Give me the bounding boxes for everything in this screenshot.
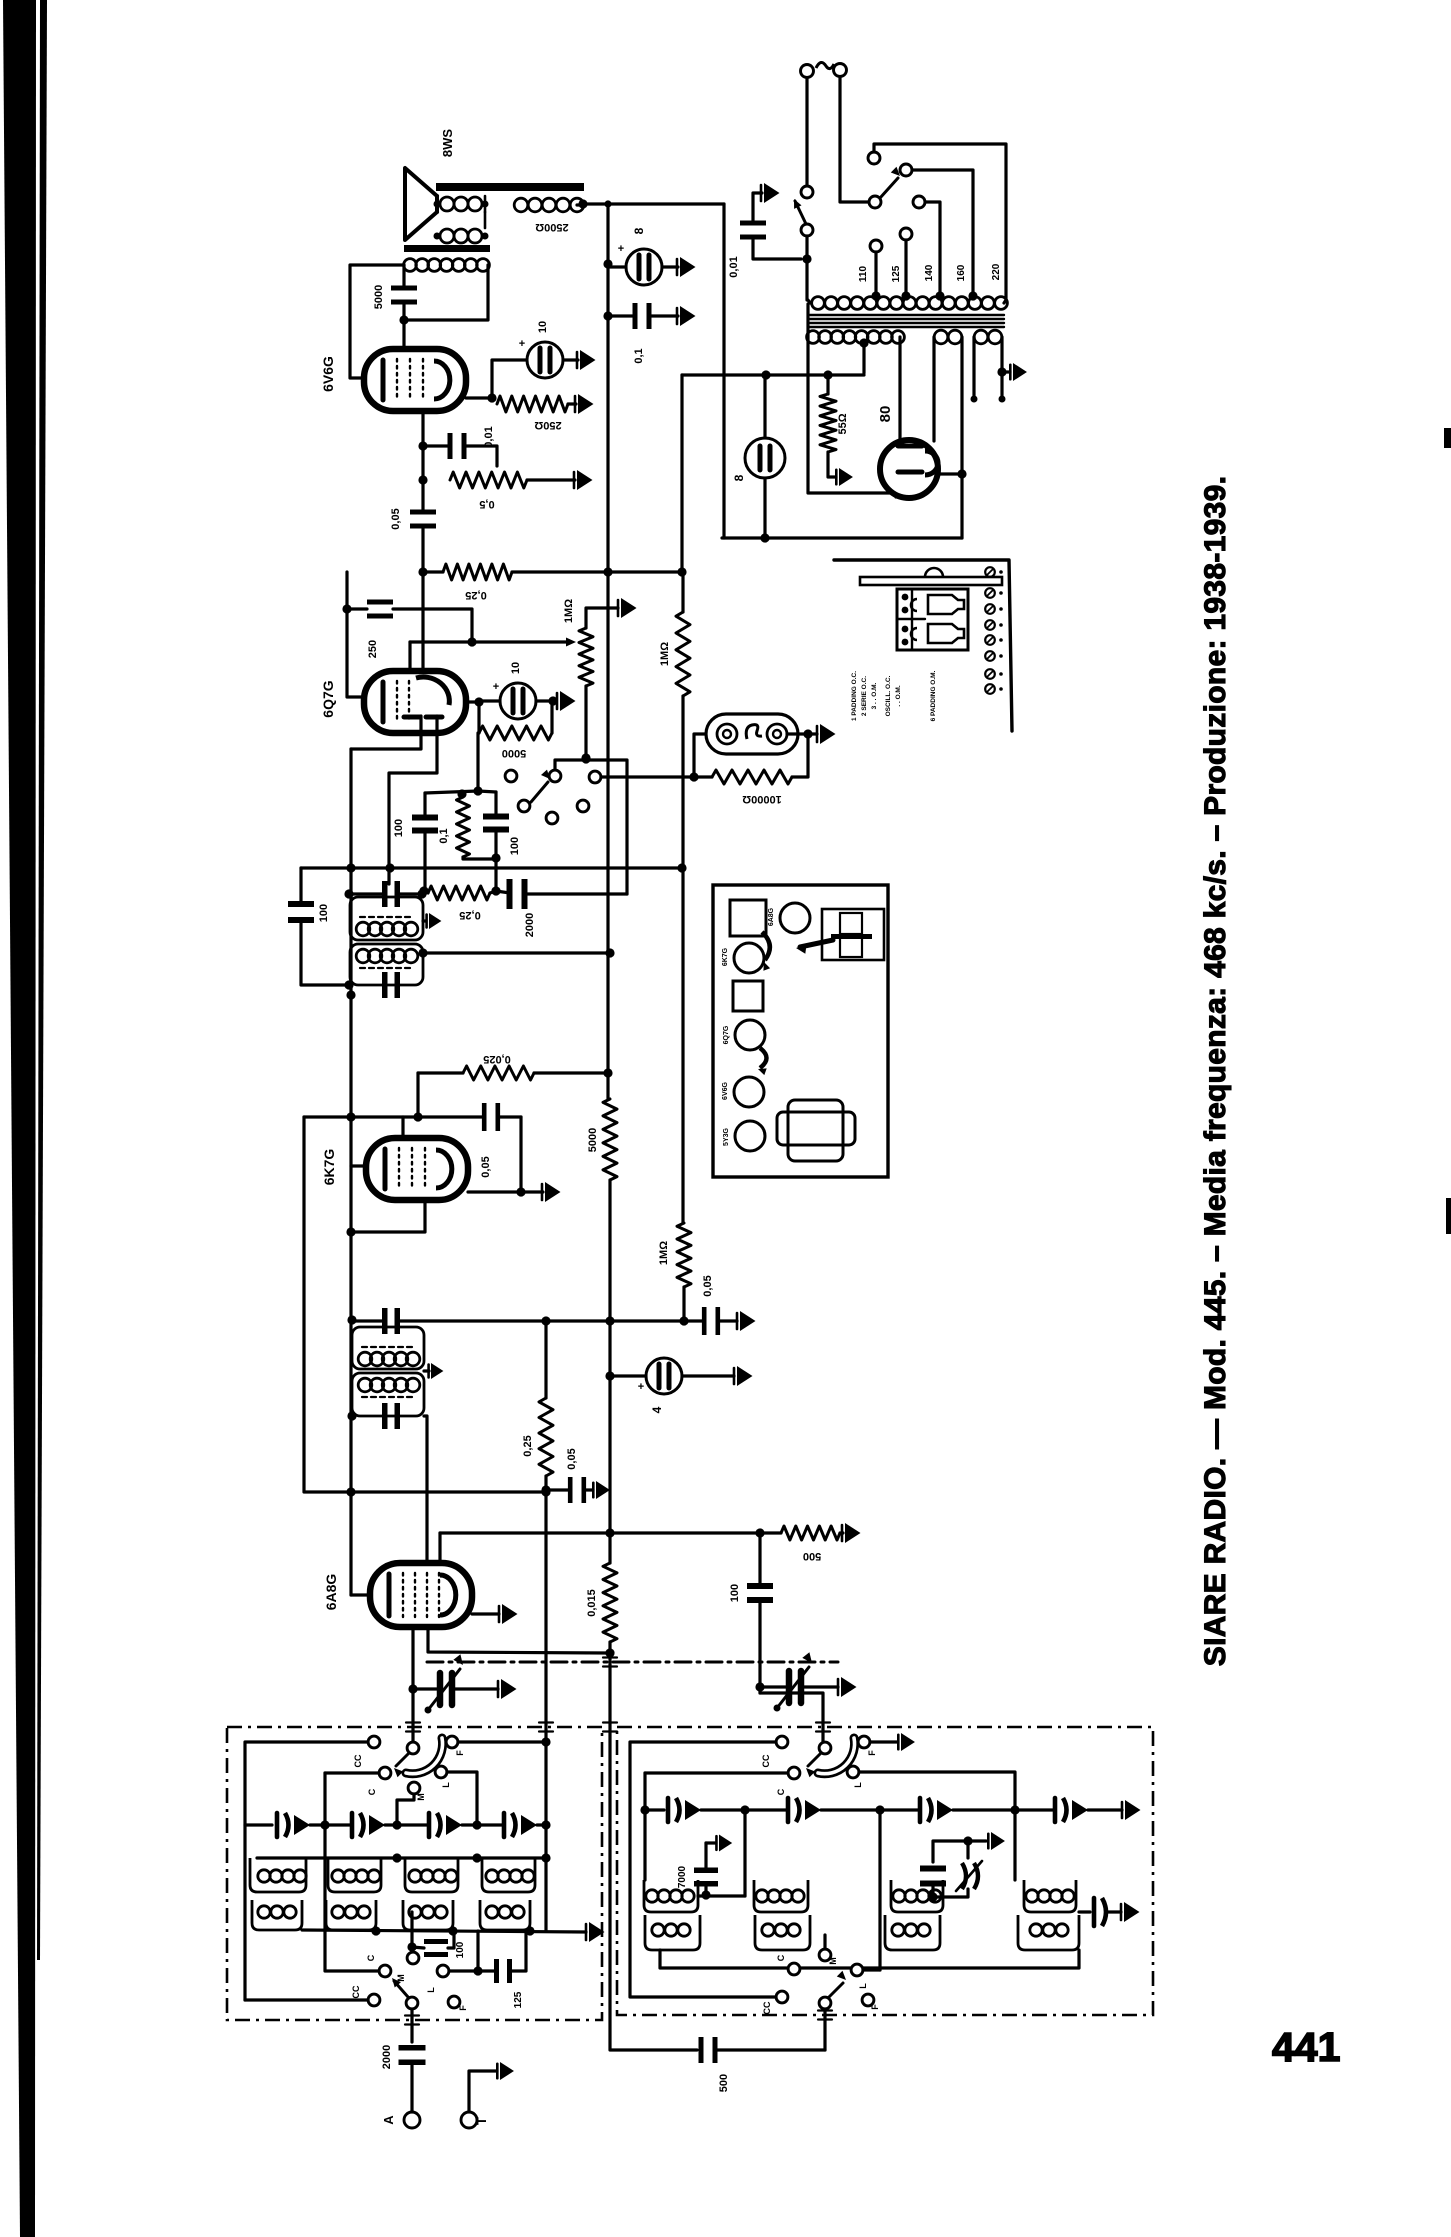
osc switch arc bbox=[818, 1738, 855, 1774]
ant contact L bottom bbox=[437, 1965, 449, 1977]
wire 7000 link bbox=[698, 1894, 745, 1897]
selector contact 160 bbox=[900, 164, 912, 176]
osc switch blade bottom bbox=[829, 1983, 843, 1997]
osc trimmer 4 bbox=[1053, 1798, 1058, 1822]
svg-text:0,01: 0,01 bbox=[728, 256, 740, 277]
ant contact C bottom bbox=[379, 1965, 391, 1977]
svg-text:125: 125 bbox=[513, 1991, 524, 2008]
wire 6A8G left bbox=[351, 1593, 370, 1596]
oscillator box border bbox=[617, 1727, 1153, 2015]
svg-text:55Ω: 55Ω bbox=[837, 413, 849, 434]
svg-text:80: 80 bbox=[877, 406, 894, 423]
resistor 55 ohm bbox=[820, 394, 836, 452]
ground arrow pickup bbox=[820, 724, 836, 744]
svg-text:6V6G: 6V6G bbox=[722, 1081, 729, 1099]
svg-text:OSCILL. O.C.: OSCILL. O.C. bbox=[885, 675, 892, 716]
resistor 0,1 det bbox=[457, 797, 470, 857]
svg-text:0,01: 0,01 bbox=[483, 426, 495, 447]
capacitor 100 c bbox=[424, 1939, 448, 1944]
capacitor 2000 ant bbox=[399, 2045, 426, 2051]
filament winding 2 bbox=[974, 330, 988, 344]
svg-text:100: 100 bbox=[729, 1584, 741, 1602]
svg-text:6K7G: 6K7G bbox=[722, 947, 729, 966]
svg-text:110: 110 bbox=[858, 265, 869, 282]
output primary coil bbox=[404, 259, 417, 272]
output transformer core bar 2 bbox=[404, 245, 490, 252]
tube 6A8G bbox=[370, 1563, 472, 1627]
power switch contact upper bbox=[801, 186, 813, 198]
svg-text:+: + bbox=[618, 243, 624, 255]
IF transformer 1 coil 2 bbox=[352, 1373, 424, 1416]
svg-text:1MΩ: 1MΩ bbox=[563, 599, 575, 623]
IF can body bbox=[897, 589, 968, 650]
wire rectifier output bbox=[937, 472, 962, 475]
svg-text:+: + bbox=[493, 681, 499, 693]
layout tube 80 bbox=[735, 1121, 765, 1151]
screw terminals bbox=[985, 567, 995, 577]
ant coil row 1d bbox=[486, 1870, 498, 1882]
ant switch pivot bbox=[407, 1742, 419, 1754]
field coil 2500 ohm bbox=[514, 198, 528, 212]
detector node wire bbox=[425, 791, 496, 793]
ant switch blade bbox=[396, 1753, 409, 1766]
layout tube 6V6G bbox=[734, 1077, 764, 1107]
IF2 shield arrow bbox=[423, 919, 426, 922]
wire cathode 6Q7G bbox=[466, 700, 479, 703]
resistor 0,25 diode bbox=[428, 886, 490, 900]
ground arrow 0,05 e bbox=[596, 1481, 610, 1499]
osc contact C bottom bbox=[788, 1963, 800, 1975]
IF2 top cap bbox=[382, 881, 388, 907]
ground arrow T bbox=[500, 2062, 514, 2080]
wire PS left loop bbox=[808, 304, 896, 497]
svg-text:160: 160 bbox=[956, 264, 967, 281]
ant coil row 2d bbox=[480, 1900, 530, 1930]
ant contact M bbox=[408, 1782, 420, 1794]
black scan edge bar bbox=[3, 0, 36, 2237]
svg-text:0,025: 0,025 bbox=[483, 1053, 511, 1065]
capacitor 0,1 bbox=[633, 303, 638, 329]
ant trimmer 3 bbox=[427, 1813, 432, 1837]
svg-text:F: F bbox=[458, 2005, 468, 2011]
capacitor 0,05 e bbox=[568, 1477, 573, 1503]
osc coil 2 sec bbox=[755, 1915, 810, 1950]
svg-text:8: 8 bbox=[632, 227, 646, 234]
wire osc pivot down bbox=[823, 2009, 826, 2050]
PS filter cap 8uF bbox=[745, 438, 785, 478]
trimmer screws bbox=[928, 595, 964, 614]
ground arrow osc F bbox=[901, 1733, 915, 1751]
wire cathode 6V6G bbox=[466, 396, 492, 399]
ant trimmer 2 bbox=[350, 1813, 355, 1837]
svg-text:2 SERIE O.C.: 2 SERIE O.C. bbox=[861, 676, 868, 716]
edge speck 1 bbox=[1444, 428, 1451, 448]
svg-text:220: 220 bbox=[991, 263, 1002, 280]
selector contact 220 bbox=[868, 152, 880, 164]
bus segment bbox=[606, 264, 609, 316]
bus segment 4 bbox=[608, 1180, 611, 1321]
svg-text:M: M bbox=[828, 1957, 838, 1965]
ant trimmer row wire bbox=[245, 1824, 264, 1826]
osc coil 1 sec bbox=[645, 1915, 700, 1950]
svg-text:1MΩ: 1MΩ bbox=[658, 1241, 670, 1265]
wire AC1 to switch bbox=[805, 78, 808, 186]
ground arrow gang a bbox=[501, 1679, 517, 1699]
ground arrow power 0,01 bbox=[764, 183, 780, 203]
svg-text:125: 125 bbox=[891, 265, 902, 282]
ant switch blade bottom bbox=[394, 1981, 408, 1997]
volume pot 1M bbox=[579, 628, 593, 686]
ground arrow gang b bbox=[841, 1677, 857, 1697]
ground arrow filament bbox=[1013, 363, 1027, 381]
svg-text:C: C bbox=[366, 1954, 376, 1961]
bus segment 5 bbox=[608, 1321, 611, 1376]
wire 6A8G cathode bbox=[472, 1612, 499, 1615]
AC terminal 2 bbox=[834, 64, 847, 77]
IF transformer 1 coil 1 bbox=[352, 1327, 424, 1369]
edge speck 2 bbox=[1446, 1198, 1451, 1234]
svg-text:L: L bbox=[441, 1782, 451, 1788]
svg-text:0,05: 0,05 bbox=[390, 508, 402, 529]
svg-text:C: C bbox=[776, 1788, 786, 1795]
filament winding 1 bbox=[934, 330, 948, 344]
svg-text:0,1: 0,1 bbox=[633, 348, 645, 363]
output transformer core bar bbox=[436, 183, 584, 191]
border tick marks bbox=[406, 1721, 420, 1723]
electrolytic 4uF bbox=[646, 1358, 682, 1394]
tone blade bbox=[531, 782, 548, 802]
ground arrow pot bbox=[621, 598, 637, 618]
osc trimmer 2 bbox=[786, 1798, 791, 1822]
svg-text:+: + bbox=[519, 338, 525, 350]
IF transformer 2 coil 2 bbox=[350, 944, 423, 985]
wire osc grid bbox=[411, 1627, 414, 1742]
svg-text:2500Ω: 2500Ω bbox=[535, 221, 568, 233]
svg-text:0,5: 0,5 bbox=[479, 498, 494, 510]
capacitor 0,05 d bbox=[702, 1307, 707, 1335]
layout arrow 2 bbox=[760, 1048, 767, 1068]
osc contact L bottom bbox=[851, 1964, 863, 1976]
osc contact M bottom bbox=[819, 1949, 831, 1961]
layout IF can 1 bbox=[730, 900, 766, 936]
svg-text:0,05: 0,05 bbox=[566, 1448, 578, 1469]
ant coil row 2c bbox=[403, 1900, 453, 1930]
svg-text:500: 500 bbox=[718, 2074, 730, 2092]
capacitor 0,01 bbox=[448, 433, 453, 459]
osc coil 4 sec bbox=[1018, 1915, 1079, 1950]
osc bottom wire bbox=[660, 1950, 1079, 1968]
capacitor 100 det 2 bbox=[483, 814, 509, 820]
earth terminal T bbox=[461, 2112, 477, 2128]
svg-text:100: 100 bbox=[509, 837, 521, 855]
bus segment 3 bbox=[606, 893, 609, 1099]
HV secondary bbox=[807, 331, 820, 344]
layout tube 6A8G bbox=[780, 903, 810, 933]
svg-text:250: 250 bbox=[367, 640, 379, 658]
tone contact 1 bbox=[505, 770, 517, 782]
capacitor 2000 bbox=[507, 879, 513, 909]
rectifier tube 80 bbox=[880, 440, 938, 498]
capacitor 250 bbox=[367, 600, 393, 605]
osc trimmer 3 bbox=[918, 1798, 923, 1822]
ground arrow 0,05 d bbox=[740, 1311, 756, 1331]
electrolytic 10uF b bbox=[500, 683, 536, 719]
resistor 0,025 bbox=[463, 1066, 534, 1080]
svg-text:. . O.M.: . . O.M. bbox=[895, 685, 902, 707]
tube 6V6G bbox=[364, 349, 466, 411]
ant secondary bottom wire bbox=[302, 1930, 586, 1932]
capacitor 100 det bbox=[412, 815, 438, 821]
wire grid2 drop bbox=[438, 1533, 441, 1563]
tone switch box wire bbox=[555, 760, 627, 894]
ant coil row 2a bbox=[252, 1900, 302, 1930]
svg-text:M: M bbox=[416, 1793, 426, 1801]
capacitor 125 bbox=[494, 1959, 499, 1983]
wire 6Q7G grid-left bbox=[347, 572, 364, 697]
ground arrow ant sec bbox=[589, 1922, 605, 1942]
svg-text:1MΩ: 1MΩ bbox=[659, 642, 671, 666]
wire switch to junction bbox=[805, 236, 808, 259]
osc contact L bbox=[847, 1766, 859, 1778]
osc contact C bbox=[788, 1767, 800, 1779]
wire bus to 500 bbox=[610, 1655, 697, 2050]
gang cap antenna bbox=[437, 1673, 444, 1705]
svg-text:8WS: 8WS bbox=[440, 129, 455, 158]
svg-text:0,05: 0,05 bbox=[480, 1156, 492, 1177]
capacitor 7000 bbox=[694, 1868, 718, 1874]
svg-text:441: 441 bbox=[1272, 2024, 1340, 2070]
wire IF1 top b bbox=[546, 1319, 703, 1322]
capacitor 100 AVC bbox=[288, 901, 314, 907]
osc coil 1 bbox=[646, 1890, 658, 1902]
node plate 6V6G bbox=[399, 315, 408, 324]
ground arrow 6A8G bbox=[502, 1604, 518, 1624]
resistor 250 ohm bbox=[497, 396, 568, 412]
wire osc link bbox=[760, 1693, 823, 1742]
svg-text:5000: 5000 bbox=[502, 747, 526, 759]
wire 1M chain bbox=[681, 696, 684, 1223]
svg-text:+: + bbox=[638, 1381, 644, 1393]
tone contact 3 bbox=[589, 771, 601, 783]
svg-text:C: C bbox=[776, 1954, 786, 1961]
capacitor 500 bbox=[699, 2037, 704, 2063]
svg-text:5000: 5000 bbox=[373, 285, 385, 309]
wire IF1 top bbox=[352, 1319, 384, 1322]
ant coil row 1c bbox=[409, 1870, 421, 1882]
ground arrow coil4 bbox=[1124, 1902, 1140, 1922]
wire 0,25 down bbox=[544, 1492, 547, 1858]
ant contact CC bottom bbox=[368, 1994, 380, 2006]
wire grid2 line bbox=[440, 1531, 760, 1534]
layout IF can 2 bbox=[733, 981, 763, 1011]
osc coil 4 bbox=[1026, 1890, 1038, 1902]
ant coil top wire bbox=[257, 1856, 546, 1859]
svg-text:100: 100 bbox=[393, 819, 405, 837]
osc trimmer 1 bbox=[666, 1798, 671, 1822]
resistor 0,5 bbox=[450, 472, 527, 488]
svg-text:250Ω: 250Ω bbox=[534, 419, 561, 431]
svg-text:T: T bbox=[474, 2117, 489, 2125]
ground arrow 55 bbox=[839, 468, 853, 486]
svg-text:2000: 2000 bbox=[381, 2045, 393, 2069]
bus segment 6 bbox=[608, 1376, 611, 1533]
svg-text:5000: 5000 bbox=[587, 1128, 599, 1152]
wire B+ top bbox=[583, 202, 724, 205]
wire ant F riser bbox=[544, 1858, 547, 1931]
ant switch pivot bottom bbox=[406, 1997, 418, 2009]
wire 1M b bottom bbox=[682, 1287, 685, 1321]
ant wire C riser bbox=[325, 1773, 379, 1971]
svg-text:F: F bbox=[455, 1750, 465, 1756]
chassis layout frame bbox=[713, 885, 888, 1177]
wire pickup right bbox=[787, 732, 808, 735]
osc coil 4 cap bbox=[1079, 1910, 1090, 1913]
tube 6Q7G bbox=[364, 671, 466, 733]
wire PS B+ rail bbox=[682, 373, 864, 376]
svg-text:8: 8 bbox=[732, 474, 746, 481]
osc contact F bbox=[858, 1736, 870, 1748]
svg-text:6A8G: 6A8G bbox=[768, 907, 775, 926]
wire cathode 6K7G bbox=[468, 1190, 543, 1193]
capacitor 0,05 coupling bbox=[410, 510, 436, 515]
ant contact C bbox=[379, 1767, 391, 1779]
ant coil row 1a bbox=[258, 1870, 270, 1882]
tone contact 6 bbox=[546, 812, 558, 824]
osc switch pivot bbox=[819, 1742, 831, 1754]
svg-text:10: 10 bbox=[510, 662, 522, 674]
svg-text:2000: 2000 bbox=[524, 913, 536, 937]
osc trimmer row bbox=[645, 1808, 664, 1811]
osc coil 3 sec bbox=[885, 1915, 940, 1950]
wire osc L riser bbox=[878, 1810, 881, 1970]
selector blade bbox=[880, 178, 898, 198]
svg-text:L: L bbox=[426, 1987, 436, 1993]
svg-text:CC: CC bbox=[762, 2001, 772, 2014]
osc contact F bottom bbox=[862, 1994, 874, 2006]
ground arrow 0,1 bbox=[680, 306, 696, 326]
wire B+ right down bbox=[722, 204, 725, 538]
bus segment 7 bbox=[608, 1642, 611, 1655]
wire PS bottom bbox=[722, 536, 962, 539]
selector common contact bbox=[869, 196, 881, 208]
osc contact CC bottom bbox=[776, 1991, 788, 2003]
wire AC2 to selector bbox=[840, 77, 868, 202]
svg-text:0,25: 0,25 bbox=[459, 909, 480, 921]
ground arrow osc row bbox=[1125, 1800, 1141, 1820]
pickup jack bbox=[706, 714, 798, 754]
ground arrow 4uF bbox=[737, 1366, 753, 1386]
osc padder pair bbox=[920, 1866, 946, 1872]
wire diode 1 bbox=[351, 716, 421, 749]
wire 6A8G bottom bbox=[428, 1627, 608, 1653]
layout arrow 1 bbox=[762, 932, 770, 960]
svg-text:0,05: 0,05 bbox=[702, 1275, 714, 1296]
svg-text:140: 140 bbox=[924, 264, 935, 281]
wire plate 6Q7G riser bbox=[421, 572, 424, 671]
wire screen 6K7G bbox=[416, 1073, 419, 1117]
resistor 5000 screen bbox=[603, 1099, 617, 1180]
wire antenna lead bbox=[410, 2009, 413, 2042]
tone contact 5 bbox=[577, 800, 589, 812]
svg-text:500: 500 bbox=[803, 1550, 821, 1562]
svg-text:F: F bbox=[870, 2004, 880, 2010]
trimmer panel bracket bbox=[860, 577, 1002, 585]
ant switch arc bbox=[406, 1738, 443, 1774]
svg-text:6A8G: 6A8G bbox=[323, 1574, 339, 1611]
wire osc C riser bbox=[643, 1773, 646, 1880]
power switch contact lower bbox=[801, 224, 813, 236]
speaker voice coil bbox=[440, 197, 454, 211]
ground arrow 250 bbox=[578, 394, 594, 414]
wire HV right to plate bbox=[898, 337, 901, 441]
capacitor 100 b bbox=[747, 1583, 773, 1589]
power cap 0,01 bbox=[740, 221, 766, 226]
wire AVC trunk bbox=[349, 749, 352, 1595]
mains transformer core bbox=[810, 314, 1004, 316]
capacitor 5000 bbox=[391, 286, 417, 291]
wire 6K7G left bbox=[351, 1164, 366, 1167]
resistor 5000 cathode bbox=[479, 726, 552, 740]
wire diode 2 bbox=[389, 716, 437, 884]
ground arrow 8uF bbox=[680, 257, 696, 277]
margin title bbox=[1199, 476, 1232, 1666]
trimmer panel frame bbox=[834, 560, 1012, 731]
layout gang bbox=[822, 909, 884, 960]
svg-text:0,015: 0,015 bbox=[586, 1589, 598, 1617]
svg-text:0,1: 0,1 bbox=[438, 828, 450, 843]
svg-text:1 PADDING O.C.: 1 PADDING O.C. bbox=[851, 671, 858, 721]
wire B+ to bus bbox=[680, 375, 683, 572]
wire diode load bbox=[301, 866, 682, 869]
tone contact 2 bbox=[549, 770, 561, 782]
layout tube 6Q7G bbox=[735, 1020, 765, 1050]
svg-text:CC: CC bbox=[351, 1985, 361, 1998]
chassis line bbox=[427, 1661, 838, 1664]
ant trimmer 1 bbox=[275, 1813, 280, 1837]
resistor 1M a bbox=[676, 612, 690, 696]
svg-text:F: F bbox=[867, 1750, 877, 1756]
bus segment 2 bbox=[606, 316, 609, 895]
ground arrow 6K7G bbox=[545, 1182, 561, 1202]
svg-text:0,25: 0,25 bbox=[522, 1435, 534, 1456]
svg-text:L: L bbox=[853, 1782, 863, 1788]
resistor 500 bbox=[781, 1526, 840, 1540]
osc switch pivot bottom bbox=[819, 1997, 831, 2009]
svg-text:100: 100 bbox=[318, 904, 330, 922]
svg-text:C: C bbox=[367, 1788, 377, 1795]
gang cap osc bbox=[786, 1671, 793, 1703]
wire AVC loop bbox=[304, 1117, 546, 1492]
svg-text:5Y3G: 5Y3G bbox=[723, 1127, 730, 1145]
ground arrow 0,5 bbox=[577, 470, 593, 490]
ant coil row 1b bbox=[332, 1870, 344, 1882]
IF1 top cap bbox=[382, 1308, 388, 1334]
ant coil row 2b bbox=[326, 1900, 376, 1930]
wire 6K7G bottom bbox=[351, 1200, 425, 1232]
svg-text:CC: CC bbox=[761, 1754, 771, 1767]
svg-text:M: M bbox=[396, 1974, 406, 1982]
ant contact CC bbox=[368, 1736, 380, 1748]
resistor 10000 bbox=[712, 770, 792, 784]
wire coil right to cap node bbox=[404, 265, 488, 320]
wire grid 6K7G bbox=[304, 1115, 482, 1118]
osc contact CC bbox=[776, 1736, 788, 1748]
svg-text:7000: 7000 bbox=[677, 1865, 688, 1888]
selector contact 110 bbox=[870, 240, 882, 252]
svg-text:SIARE RADIO. — Mod. 445. – Med: SIARE RADIO. — Mod. 445. – Media frequen… bbox=[1199, 476, 1232, 1666]
svg-text:L: L bbox=[858, 1983, 868, 1989]
ground arrow 7000 bbox=[719, 1835, 732, 1852]
